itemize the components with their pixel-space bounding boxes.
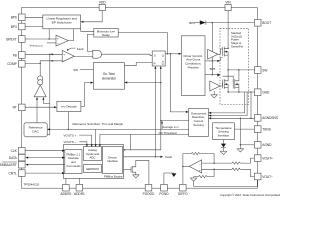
block tPW Decode	[57, 101, 81, 111]
wire diffo plus input	[202, 168, 232, 170]
arrows into ADC top	[86, 144, 88, 147]
svg-text:Interface: Interface	[107, 159, 118, 163]
svg-text:Sensing: Sensing	[193, 123, 204, 127]
ground AGND arrow	[239, 145, 241, 149]
wire CNTL	[25, 172, 63, 174]
wire linreg bottom-right to mintoff	[81, 29, 94, 32]
svg-text:CLK: CLK	[11, 149, 18, 153]
wire GND rail	[228, 88, 239, 92]
pin COMP	[19, 61, 26, 68]
wire driver upper gate rail	[205, 60, 219, 62]
pin SMBALERT	[19, 161, 26, 168]
AND gate	[93, 50, 102, 58]
diode thermal	[223, 140, 225, 144]
pin DIFFO	[180, 184, 187, 191]
svg-text:Average IOUT: Average IOUT	[162, 125, 179, 129]
ground lower driver	[211, 95, 217, 98]
svg-text:Q: Q	[162, 53, 164, 57]
pin PGOOD	[145, 184, 152, 191]
svg-text:AGNDSNS: AGNDSNS	[262, 116, 278, 120]
wire VIN down to high FET	[227, 11, 229, 49]
wire SW node	[227, 55, 229, 70]
wire TSNS	[234, 128, 254, 130]
wire sense tap 1	[210, 92, 244, 113]
wire ADDR1 up	[78, 179, 80, 185]
svg-text:BP3: BP3	[11, 25, 17, 29]
wire into ontime right edge	[126, 82, 161, 84]
svg-text:+: +	[57, 36, 59, 40]
svg-text:Q: Q	[162, 62, 164, 66]
current source gm output	[39, 64, 41, 77]
block Minimum tOFF Delay	[94, 28, 118, 37]
wire mintoff lower input and AND feed	[87, 34, 93, 51]
node FB sense	[49, 54, 51, 56]
ground PGND solid	[171, 173, 176, 177]
wire BP6 rail down to drivers	[211, 23, 213, 75]
block PMBus 1.1 Interface and Commands	[65, 150, 82, 174]
svg-text:−: −	[199, 162, 201, 166]
svg-text:SW: SW	[262, 68, 267, 72]
wire BPEXT to comparator	[25, 38, 56, 40]
svg-text:Commands: Commands	[66, 164, 81, 168]
wire RefDAC up into error amp	[36, 99, 38, 123]
svg-text:VIN: VIN	[225, 0, 231, 4]
svg-text:−: −	[63, 59, 65, 63]
wire ontime out to latch R	[124, 63, 152, 66]
SR latch U-latch	[152, 51, 165, 66]
svg-text:ADDR0: ADDR0	[60, 192, 71, 196]
svg-text:PGOOD: PGOOD	[143, 192, 156, 196]
svg-text:FB: FB	[13, 53, 17, 57]
node tPW to reference wire	[68, 129, 70, 131]
op-amp error amplifier (points up)	[34, 85, 46, 97]
wire latch Q to driver	[165, 53, 180, 55]
wire error amp second input from FB net	[43, 99, 49, 104]
op-amp DIFFO (points left)	[189, 160, 202, 173]
pin RT	[19, 104, 26, 111]
svg-text:−: −	[57, 42, 59, 46]
resistor to VOUT+	[232, 162, 240, 164]
svg-text:COMP: COMP	[7, 62, 17, 66]
pin VIN	[225, 4, 231, 10]
op-amp PWM comparator	[62, 50, 74, 62]
transistor Q2 low side	[220, 82, 223, 86]
svg-text:VOUTS −: VOUTS −	[64, 140, 77, 144]
wire FB down to VOUTS+	[47, 54, 50, 135]
wire comparator out up to linreg	[68, 29, 73, 41]
svg-text:R: R	[154, 62, 156, 66]
block Temperature Sensing Interface	[213, 123, 235, 140]
svg-text:Fault: Fault	[165, 155, 172, 159]
svg-text:VOUT+: VOUT+	[262, 156, 273, 160]
svg-text:+: +	[63, 52, 65, 56]
wire RT to tPW decode	[25, 106, 55, 108]
block EEPROM	[84, 165, 102, 173]
wire AND out to latch S	[102, 54, 153, 55]
wire ADDR0 up	[65, 179, 67, 185]
wire BP3 to linreg	[25, 26, 43, 28]
wire tPW decode up to ontime	[81, 83, 92, 107]
svg-text:DAC: DAC	[32, 130, 39, 134]
node Fault tap on comparator	[67, 49, 69, 51]
pin BOOT	[254, 20, 261, 27]
wire DATA	[28, 157, 64, 159]
svg-text:PGND: PGND	[159, 192, 169, 196]
node BPEXT stub to linreg bottom	[48, 38, 50, 40]
svg-text:EEPROM: EEPROM	[86, 167, 99, 171]
block Reference DAC	[24, 123, 47, 137]
svg-text:TPS544C20: TPS544C20	[24, 182, 40, 186]
wire latch vertical to OC and PMBus	[124, 67, 161, 150]
svg-text:PMBus Engine: PMBus Engine	[104, 175, 123, 179]
svg-text:Copyright © 2016, Texas Instru: Copyright © 2016, Texas Instruments Inco…	[220, 193, 280, 197]
svg-text:SMBALERT: SMBALERT	[0, 163, 17, 167]
pin AGNDSNS	[254, 115, 261, 122]
svg-text:AGND: AGND	[262, 143, 272, 147]
block Linear Regulators and BP Switchover	[43, 15, 81, 29]
pin GND	[254, 89, 261, 96]
pin ADDR0	[63, 184, 70, 191]
block Analog Inputs and ADC	[84, 147, 102, 161]
wire mintoff out loop to Q	[118, 33, 167, 54]
svg-text:Fault: Fault	[77, 47, 84, 51]
wire FB to PWM comparator	[25, 53, 62, 55]
svg-text:VOUTS +: VOUTS +	[64, 133, 77, 137]
block PMBus Engine outer	[64, 145, 124, 179]
svg-text:SW: SW	[73, 68, 78, 72]
pin AGND	[254, 142, 261, 149]
wire VOUT- bottom return	[194, 180, 258, 187]
wire Q down to overcurrent box	[170, 54, 187, 112]
ground thermal	[220, 151, 226, 154]
resistor to VOUT-	[232, 168, 240, 170]
svg-text:VOUT−: VOUT−	[262, 175, 273, 179]
svg-text:BP6: BP6	[189, 21, 195, 25]
svg-text:ADC: ADC	[90, 156, 96, 160]
wire AGNDSNS sense	[210, 117, 254, 119]
pin FB	[19, 52, 26, 59]
pin ADDR1	[76, 184, 83, 191]
wire VDD down into linreg	[82, 11, 102, 22]
pin DATA	[19, 154, 26, 161]
svg-text:BP Switchover: BP Switchover	[52, 21, 72, 25]
wire SMBALERT	[28, 164, 65, 166]
svg-text:DATA: DATA	[9, 156, 18, 160]
wire PWM out to AND	[74, 55, 93, 57]
svg-text:Generator: Generator	[102, 76, 117, 80]
pin BP3	[19, 23, 26, 30]
svg-text:DIFFO: DIFFO	[178, 192, 188, 196]
driver U2 lower	[210, 81, 220, 91]
wire CLK	[25, 150, 63, 152]
wire DIFFO up to amp	[182, 166, 184, 184]
svg-text:BP6: BP6	[11, 16, 17, 20]
block Driver Control Anti-Cross Conduction Predrive	[182, 36, 206, 96]
node COMP	[39, 63, 41, 65]
svg-text:SenseFet: SenseFet	[231, 45, 243, 49]
wire PGND to ground	[164, 173, 174, 184]
transistor PGOOD pulldown	[124, 169, 132, 171]
pin VOUT+	[254, 155, 261, 162]
svg-text:Delay: Delay	[102, 33, 110, 37]
wire diffo minus input	[202, 162, 232, 164]
pin PGND	[161, 184, 168, 191]
wire PGOOD drain	[136, 160, 149, 184]
svg-text:TSNS: TSNS	[262, 127, 271, 131]
svg-text:VREG(lowest): VREG(lowest)	[30, 43, 44, 47]
pin VDD	[99, 4, 105, 10]
pin SW	[254, 67, 261, 74]
op-amp BPEXT switchover comparator	[56, 35, 68, 46]
svg-text:GND: GND	[262, 91, 270, 95]
svg-text:Reference Soft-Start, Trim and: Reference Soft-Start, Trim and Margin	[73, 122, 124, 126]
pin BPEXT	[19, 36, 26, 43]
ground DIFFO bias	[190, 178, 196, 181]
svg-text:S: S	[154, 54, 156, 58]
ground PGOOD source	[133, 175, 139, 178]
diode BP6 boot	[195, 22, 200, 24]
pin TSNS	[254, 126, 261, 133]
svg-text:BOOT: BOOT	[262, 21, 271, 25]
wire BP6 to linreg	[25, 16, 43, 18]
block Overcurrent Detection Current Sensing	[189, 108, 209, 136]
svg-text:VDD: VDD	[99, 0, 106, 4]
svg-text:ADDR1: ADDR1	[74, 192, 85, 196]
transistor Q1 high side	[218, 49, 223, 54]
wire driver lower gate rail	[205, 74, 219, 76]
wire reference soft-start	[49, 128, 189, 130]
svg-text:Interface: Interface	[218, 134, 230, 138]
IC boundary	[22, 8, 258, 189]
pin BP6	[19, 14, 26, 21]
dashed power stage box	[220, 28, 249, 104]
svg-text:Predrive: Predrive	[188, 65, 200, 69]
resistor DIFFO feedback	[183, 154, 191, 167]
pin CLK	[19, 147, 26, 154]
wire AGND ground vertical	[239, 118, 241, 145]
block Device Interface	[103, 147, 123, 174]
wire COMP to PWM comparator	[25, 61, 62, 64]
wire fault from device interface	[124, 156, 162, 158]
pin CNTL	[19, 170, 26, 177]
svg-text:BP6: BP6	[210, 67, 216, 71]
wire VOUTS-	[79, 142, 87, 145]
svg-text:RT: RT	[13, 106, 17, 110]
block On-Time Generator	[93, 63, 124, 90]
driver U1 upper	[208, 49, 218, 59]
pin VOUT-	[254, 173, 261, 180]
wire latch feedback vertical to fault net	[154, 67, 156, 157]
svg-text:CNTL: CNTL	[8, 171, 17, 175]
transistor Q3 sense	[223, 76, 234, 82]
resistor DIFFO plus bias	[207, 169, 214, 176]
svg-text:BPEXT: BPEXT	[6, 37, 17, 41]
wire VOUTS+	[79, 135, 91, 145]
wire sense tap 2	[210, 92, 247, 116]
